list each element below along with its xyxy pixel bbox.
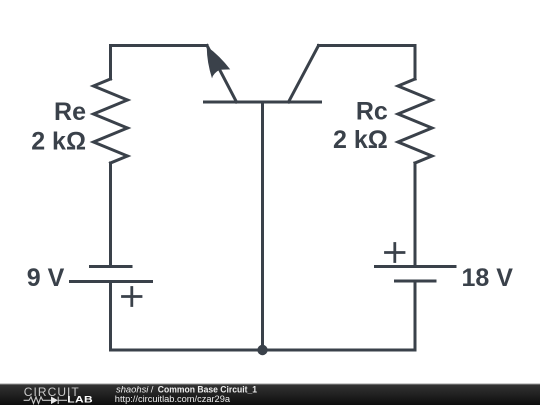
svg-text:Re: Re (54, 98, 86, 126)
svg-text:Rc: Rc (356, 98, 388, 126)
svg-text:18 V: 18 V (462, 264, 514, 292)
svg-text:LAB: LAB (67, 395, 93, 405)
svg-text:2 kΩ: 2 kΩ (333, 126, 388, 154)
svg-text:9 V: 9 V (27, 264, 65, 292)
svg-text:2 kΩ: 2 kΩ (31, 127, 86, 155)
svg-text:http://circuitlab.com/czar29a: http://circuitlab.com/czar29a (115, 394, 231, 405)
